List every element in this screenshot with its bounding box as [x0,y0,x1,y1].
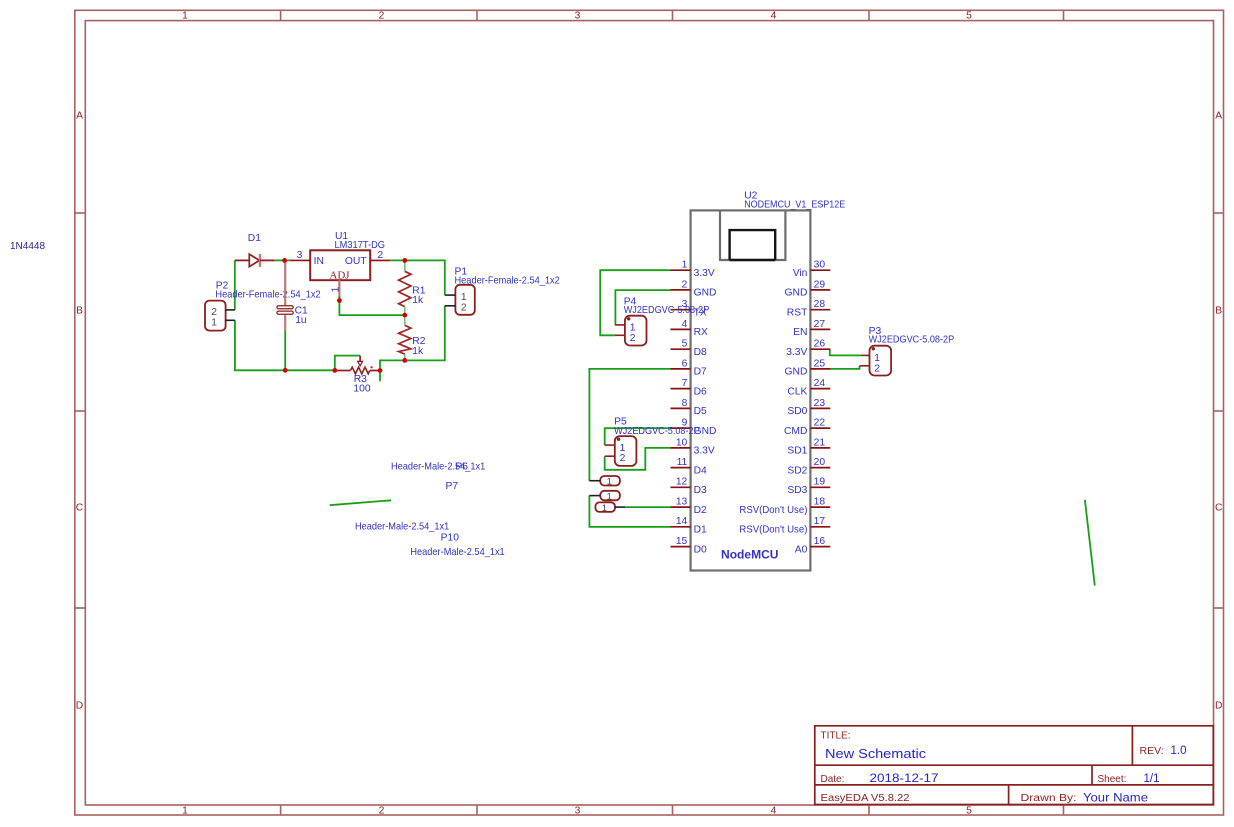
svg-text:D7: D7 [694,367,707,378]
connector P1 (Header-Female-2.54_1x2) [445,267,560,315]
svg-text:D5: D5 [694,406,707,417]
svg-text:4: 4 [771,11,777,22]
svg-text:GND: GND [785,288,808,299]
U2 pin 29 (GND) [785,279,831,298]
svg-text:6: 6 [682,358,688,369]
wire [330,500,391,505]
junction [378,368,383,373]
connector P5 (WJ2EDGVC-5.08-2P) [605,417,700,466]
U2 pin 10 (3.3V) [671,437,715,456]
svg-text:5: 5 [966,11,972,22]
svg-text:RST: RST [787,307,808,318]
svg-text:3: 3 [297,250,303,261]
wire [605,448,671,470]
svg-text:SD0: SD0 [787,406,807,417]
junction [282,258,287,263]
svg-text:1.0: 1.0 [1171,745,1187,757]
svg-text:IN: IN [314,256,324,267]
U2 pin 8 (D5) [671,398,708,417]
svg-text:1: 1 [182,11,188,22]
regulator U1 (LM317T-DG) [310,231,385,282]
MCU U2 (NODEMCU_V1_ESP12E) [691,190,846,570]
U1 pin 1 (ADJ) [331,280,342,300]
svg-text:2: 2 [211,307,217,318]
wire [284,330,286,370]
svg-text:D8: D8 [694,347,707,358]
U2 pin 26 (3.3V) [786,339,830,358]
U2 pin 7 (D6) [671,378,708,397]
junction [337,298,342,303]
svg-text:3.3V: 3.3V [694,268,715,279]
svg-text:11: 11 [677,457,688,468]
header P6 (1-pin) [589,476,619,488]
U2 pin 4 (RX) [671,319,709,338]
svg-text:D0: D0 [694,544,707,555]
svg-text:22: 22 [814,418,826,429]
svg-text:1k: 1k [412,346,424,357]
svg-text:4: 4 [682,319,688,330]
header P7 (1-pin) [589,491,619,503]
svg-text:1: 1 [331,286,342,292]
svg-text:D3: D3 [694,485,707,496]
svg-text:SD1: SD1 [787,446,807,457]
svg-text:RSV(Don't Use): RSV(Don't Use) [739,505,807,516]
svg-text:B: B [1215,306,1222,317]
svg-text:1N4448: 1N4448 [10,241,45,252]
wire [275,259,291,261]
wire [830,349,861,355]
U2 pin 5 (D8) [671,339,708,358]
U2 pin 22 (CMD) [784,418,830,437]
svg-text:23: 23 [814,398,826,409]
wire [335,356,360,371]
connector P3 (WJ2EDGVC-5.08-2P) [860,326,955,375]
U2 pin 21 (SD1) [787,437,830,456]
junction [402,358,407,363]
wire [234,260,236,310]
wire [605,428,671,445]
svg-text:EasyEDA V5.8.22: EasyEDA V5.8.22 [821,793,910,804]
wire [235,320,335,370]
U2 pin 14 (D1) [671,516,708,535]
svg-text:1/1: 1/1 [1144,773,1160,785]
svg-text:28: 28 [814,299,826,310]
wire [589,369,670,481]
svg-text:A0: A0 [795,544,808,555]
U2 pin 16 (A0) [795,536,831,555]
U2 pin 30 (Vin) [793,260,831,279]
svg-text:Drawn By:: Drawn By: [1021,793,1077,804]
wire [1085,500,1095,586]
svg-text:2: 2 [620,453,626,464]
svg-text:2: 2 [682,279,688,290]
svg-text:2018-12-17: 2018-12-17 [870,773,939,785]
svg-text:4: 4 [771,806,777,817]
svg-text:A: A [76,111,83,122]
svg-text:GND: GND [785,367,808,378]
svg-text:2: 2 [377,250,383,261]
capacitor C1 (1u) [277,260,308,330]
U1 pin 3 (IN) [290,250,310,261]
svg-text:29: 29 [814,279,826,290]
svg-text:27: 27 [814,319,826,330]
svg-text:10: 10 [676,437,688,448]
junction [402,258,407,263]
svg-text:13: 13 [676,497,688,508]
U2 pin 19 (SD3) [787,477,830,496]
svg-text:NODEMCU_V1_ESP12E: NODEMCU_V1_ESP12E [744,200,845,211]
svg-text:1: 1 [607,491,612,502]
svg-text:1: 1 [620,443,626,454]
U2 pin 3 (TX) [671,299,707,318]
svg-text:ADJ: ADJ [329,270,350,282]
svg-text:C: C [1215,503,1223,514]
U2 pin 28 (RST) [787,299,831,318]
svg-text:CMD: CMD [784,426,807,437]
svg-text:Header-Female-2.54_1x2: Header-Female-2.54_1x2 [215,290,321,301]
svg-text:Vin: Vin [793,268,808,279]
svg-text:2: 2 [461,302,467,313]
connector P2 (Header-Female-2.54_1x2) [205,280,321,330]
svg-text:2: 2 [630,333,636,344]
svg-text:1: 1 [874,353,880,364]
U2 pin 11 (D4) [671,457,708,476]
wire [390,260,445,295]
svg-text:3.3V: 3.3V [786,347,807,358]
svg-text:Your Name: Your Name [1083,790,1148,804]
svg-text:P10: P10 [441,532,460,543]
svg-text:14: 14 [676,516,688,527]
svg-text:1: 1 [461,292,467,303]
svg-text:5: 5 [682,339,688,350]
svg-text:D1: D1 [694,525,707,536]
svg-text:D: D [76,701,83,712]
svg-text:1u: 1u [295,315,307,326]
svg-text:20: 20 [814,457,826,468]
svg-text:1: 1 [607,477,612,488]
junction [283,368,288,373]
U2 pin 9 (GND) [671,418,717,437]
svg-text:5: 5 [966,806,972,817]
svg-text:D6: D6 [694,386,707,397]
wire [589,496,670,527]
svg-text:EN: EN [793,327,807,338]
svg-text:C: C [76,503,84,514]
svg-text:1: 1 [211,317,217,328]
svg-text:NodeMCU: NodeMCU [721,548,779,562]
svg-text:New Schematic: New Schematic [825,746,927,761]
junction [402,313,407,318]
svg-text:D: D [1215,701,1222,712]
svg-text:1: 1 [182,806,188,817]
svg-text:Sheet:: Sheet: [1098,774,1127,785]
svg-text:3: 3 [575,11,581,22]
svg-text:16: 16 [814,536,826,547]
junction [332,368,337,373]
svg-text:Header-Male-2.54_1x1: Header-Male-2.54_1x1 [391,461,486,472]
svg-text:1: 1 [602,503,607,514]
connector P4 (WJ2EDGVC-5.08-2P) [615,297,710,346]
svg-text:REV:: REV: [1140,745,1164,757]
svg-text:1: 1 [630,322,636,333]
svg-text:21: 21 [814,437,826,448]
svg-text:P6: P6 [455,461,468,472]
svg-text:30: 30 [814,260,826,271]
svg-text:D1: D1 [248,233,261,244]
svg-text:26: 26 [814,339,826,350]
svg-text:25: 25 [814,358,826,369]
wire [625,506,671,508]
svg-text:P7: P7 [446,481,459,492]
svg-text:3.3V: 3.3V [694,446,715,457]
svg-text:WJ2EDGVC-5.08-2P: WJ2EDGVC-5.08-2P [869,335,955,346]
svg-text:2: 2 [379,806,385,817]
svg-text:15: 15 [676,536,688,547]
svg-text:1: 1 [682,260,688,271]
U2 pin 12 (D3) [671,477,708,496]
svg-text:24: 24 [814,378,826,389]
svg-text:SD3: SD3 [787,485,807,496]
U2 pin 13 (D2) [671,497,708,516]
svg-text:Date:: Date: [821,774,845,785]
wire [615,290,670,325]
U2 pin 17 (RSV(Don&#39;t Use)) [739,516,830,535]
svg-text:Header-Male-2.54_1x1: Header-Male-2.54_1x1 [355,522,450,533]
svg-text:100: 100 [353,383,370,394]
svg-text:TITLE:: TITLE: [821,731,851,742]
svg-text:OUT: OUT [345,256,367,267]
svg-text:GND: GND [694,288,717,299]
svg-text:D2: D2 [694,505,707,516]
svg-text:D4: D4 [694,465,707,476]
U2 pin 1 (3.3V) [671,260,715,279]
svg-text:7: 7 [682,378,688,389]
svg-text:B: B [76,306,83,317]
svg-text:SD2: SD2 [787,465,807,476]
svg-text:17: 17 [814,516,826,527]
wire [380,306,445,371]
U2 pin 6 (D7) [671,358,708,377]
U2 pin 24 (CLK) [787,378,830,397]
diode D1 [235,233,275,267]
U2 pin 20 (SD2) [787,457,830,476]
wire [379,371,381,382]
svg-text:Header-Male-2.54_1x1: Header-Male-2.54_1x1 [410,547,505,558]
U2 pin 18 (RSV(Don&#39;t Use)) [739,497,830,516]
svg-text:3: 3 [575,806,581,817]
U2 pin 25 (GND) [785,358,831,377]
svg-text:2: 2 [379,11,385,22]
svg-text:RSV(Don't Use): RSV(Don't Use) [739,525,807,536]
resistor R1 (1k) [399,260,426,315]
potentiometer R3 (100) [335,356,380,395]
svg-text:12: 12 [676,477,688,488]
wire [339,301,404,316]
wire [600,270,670,335]
U2 pin 15 (D0) [671,536,708,555]
svg-text:CLK: CLK [787,386,807,397]
svg-text:A: A [1215,111,1222,122]
U2 pin 23 (SD0) [787,398,830,417]
svg-text:2: 2 [874,363,880,374]
resistor R2 (1k) [399,315,426,360]
title block [815,726,1214,805]
svg-text:18: 18 [814,497,826,508]
U1 pin 2 (OUT) [370,250,390,261]
svg-text:19: 19 [814,477,826,488]
svg-text:RX: RX [694,327,708,338]
header P10 (1-pin) [595,502,625,514]
svg-text:8: 8 [682,398,688,409]
svg-text:1k: 1k [412,295,424,306]
svg-text:WJ2EDGVC-5.08-2P: WJ2EDGVC-5.08-2P [624,305,710,316]
U2 pin 2 (GND) [671,279,717,298]
U2 pin 27 (EN) [793,319,830,338]
wire [830,366,860,369]
